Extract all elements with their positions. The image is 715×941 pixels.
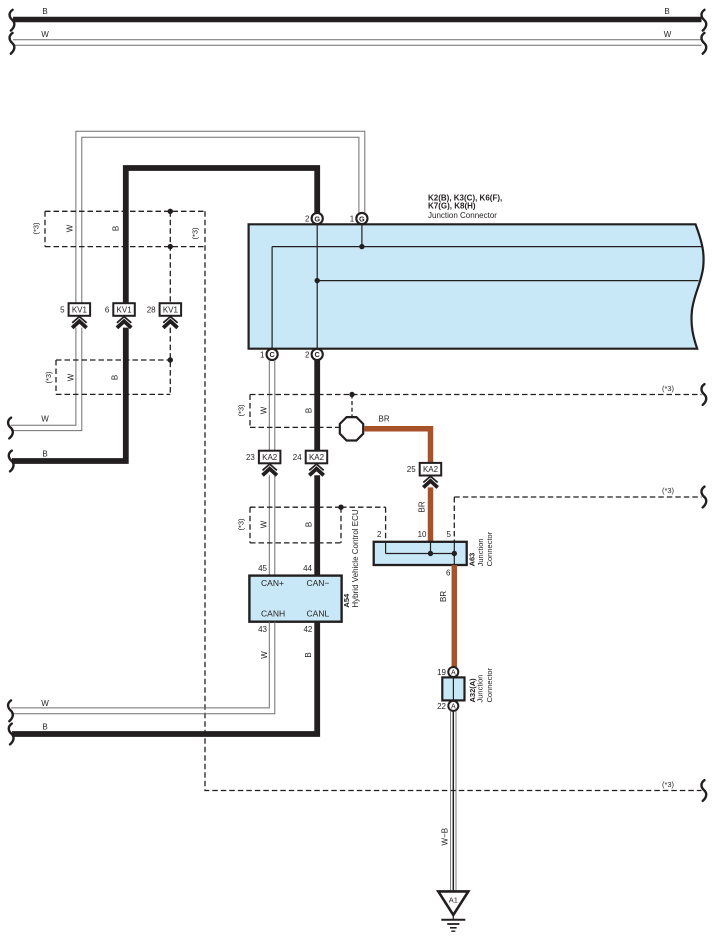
pin 22 A circle [448, 701, 458, 711]
svg-text:W: W [41, 699, 49, 708]
svg-text:B: B [42, 7, 47, 16]
junction dot A63 pin 10 [428, 551, 433, 556]
svg-text:KV1: KV1 [163, 305, 179, 314]
svg-text:Connector: Connector [485, 531, 494, 566]
svg-text:KV1: KV1 [117, 305, 133, 314]
svg-text:B: B [304, 408, 313, 413]
svg-text:A: A [451, 704, 456, 711]
svg-text:B: B [111, 226, 120, 231]
svg-text:CAN+: CAN+ [261, 578, 284, 588]
A63 internal wires and junction dots [386, 542, 457, 565]
svg-text:Connector: Connector [485, 667, 494, 702]
junction connector K2/K3/K6/K7/K8 (big box) [249, 194, 704, 349]
pin 1 G top [350, 213, 368, 224]
pin 1 C bottom [260, 349, 278, 360]
svg-text:24: 24 [293, 453, 302, 462]
svg-text:1: 1 [260, 350, 265, 359]
svg-text:B: B [110, 375, 119, 380]
svg-text:A54: A54 [342, 593, 351, 608]
svg-text:W: W [41, 30, 49, 39]
connector KA2 pin 24 [293, 451, 327, 476]
junction dot shield bottom [168, 244, 173, 249]
junction connector A32(A) [437, 667, 494, 711]
ECU A54 box [249, 509, 359, 634]
svg-text:KA2: KA2 [423, 465, 439, 474]
svg-text:BR: BR [379, 415, 390, 424]
svg-text:K7(G), K8(H): K7(G), K8(H) [428, 202, 476, 211]
svg-text:CANH: CANH [261, 608, 285, 618]
connector KV1 pin 6 [105, 303, 135, 328]
svg-text:Junction: Junction [476, 538, 485, 566]
svg-text:W: W [664, 30, 672, 39]
svg-text:W: W [65, 224, 74, 232]
shield dashed wire right to A63 pin 5 [454, 486, 706, 542]
svg-text:(*3): (*3) [236, 404, 245, 417]
big box internal wire from 1G to 1C and right edge [272, 224, 702, 348]
svg-text:22: 22 [437, 702, 446, 711]
wire B loop upper (left leg, top, right leg to pin 2G) [126, 168, 317, 303]
svg-text:28: 28 [147, 305, 156, 314]
svg-text:G: G [359, 214, 365, 223]
svg-text:W−B: W−B [440, 828, 449, 846]
shield dashed box 3 [236, 384, 706, 427]
shield dashed box 1 (upper left) [31, 211, 205, 246]
pin 2 G top [305, 213, 323, 224]
svg-text:CANL: CANL [307, 608, 330, 618]
connector KV1 pin 28 [147, 303, 181, 328]
svg-text:5: 5 [60, 305, 65, 314]
svg-text:2: 2 [377, 530, 382, 539]
wire W loop upper (left leg, top, right leg to pin 1G) [76, 131, 365, 303]
svg-text:C: C [315, 350, 321, 359]
ground A1 [438, 891, 468, 931]
shield dashed wire box4 to A63 pin 2 [341, 507, 386, 542]
svg-text:23: 23 [246, 453, 255, 462]
svg-text:CAN−: CAN− [306, 578, 329, 588]
svg-text:(*3): (*3) [662, 780, 675, 789]
svg-text:2: 2 [305, 215, 310, 224]
svg-text:42: 42 [303, 625, 312, 634]
svg-text:2: 2 [305, 350, 310, 359]
svg-text:A1: A1 [449, 896, 458, 905]
svg-text:Junction: Junction [476, 675, 485, 703]
junction dot pin 1G branch [359, 244, 364, 249]
svg-text:B: B [42, 450, 47, 459]
svg-text:B: B [664, 7, 669, 16]
wire W-B from A32 pin 22 to ground [440, 711, 456, 892]
junction dot shield top [168, 209, 173, 214]
junction dot shield box2 [168, 357, 173, 362]
svg-text:B: B [42, 723, 47, 732]
svg-text:(*3): (*3) [662, 486, 675, 495]
svg-text:44: 44 [303, 564, 312, 573]
wire W lower-left horizontal with corner [8, 328, 82, 439]
wire BR from A63 pin 6 to A32 pin 19 [439, 565, 454, 667]
svg-text:(*3): (*3) [190, 227, 199, 240]
svg-text:(*3): (*3) [236, 518, 245, 531]
svg-text:19: 19 [437, 668, 446, 677]
svg-text:KA2: KA2 [262, 453, 278, 462]
svg-text:W: W [41, 415, 49, 424]
connector KA2 pin 23 [246, 451, 280, 476]
svg-text:(*3): (*3) [662, 384, 675, 393]
shield dashed wire through KV1 28 [169, 211, 171, 394]
connector KA2 pin 25 [407, 463, 441, 488]
svg-text:B: B [304, 652, 313, 657]
wire B from pin 2C down to ECU pin 44 [314, 360, 320, 576]
svg-text:W: W [259, 520, 268, 528]
shield dashed box 2 (lower left) [44, 357, 173, 394]
svg-text:W: W [66, 373, 75, 381]
svg-text:Hybrid Vehicle Control ECU: Hybrid Vehicle Control ECU [351, 509, 360, 607]
wire B lower-left horizontal with corner [9, 328, 126, 472]
svg-text:(*3): (*3) [44, 371, 53, 384]
big box internal wire from 2G to 2C and right edge [315, 224, 699, 348]
junction dot A63 pin 5/6 [452, 551, 457, 556]
pin 19 A circle [448, 667, 458, 677]
wire W from pin 1C down to ECU pin 45 [269, 360, 275, 576]
svg-text:6: 6 [446, 569, 451, 578]
noise filter octagon [340, 417, 363, 440]
svg-text:W: W [259, 406, 268, 414]
shield dashed long right branch [205, 211, 706, 801]
shield dashed box 4 [236, 505, 343, 543]
svg-text:G: G [314, 214, 320, 223]
svg-text:BR: BR [418, 501, 427, 512]
wire BR from octagon to KA2 25 [364, 415, 431, 463]
junction dot pin 2G branch [315, 278, 320, 283]
svg-text:Junction Connector: Junction Connector [428, 211, 497, 220]
wire W from ECU pin 43 to bottom left [8, 622, 275, 721]
svg-text:W: W [260, 651, 269, 659]
wire B top horizontal [10, 7, 707, 31]
svg-text:6: 6 [105, 305, 110, 314]
A32 body [442, 677, 464, 700]
svg-text:KA2: KA2 [309, 453, 325, 462]
wire W top horizontal [10, 30, 707, 54]
junction dot shield to octagon [349, 392, 354, 397]
svg-text:10: 10 [418, 530, 427, 539]
svg-text:45: 45 [258, 564, 267, 573]
svg-text:(*3): (*3) [31, 222, 40, 235]
svg-text:KV1: KV1 [72, 305, 88, 314]
svg-text:C: C [269, 350, 275, 359]
wire B from ECU pin 42 to bottom left [9, 622, 317, 745]
pin 2 C bottom [305, 349, 323, 360]
junction connector A63 [374, 530, 494, 578]
svg-text:B: B [304, 522, 313, 527]
svg-text:43: 43 [258, 625, 267, 634]
svg-text:BR: BR [439, 591, 448, 602]
svg-text:5: 5 [447, 530, 452, 539]
junction dot shield box4 [338, 505, 343, 510]
svg-text:A: A [451, 670, 456, 677]
svg-text:25: 25 [407, 465, 416, 474]
connector KV1 pin 5 [60, 303, 90, 328]
wire BR from KA2 25 to A63 pin 10 [418, 487, 431, 541]
svg-text:1: 1 [350, 215, 355, 224]
